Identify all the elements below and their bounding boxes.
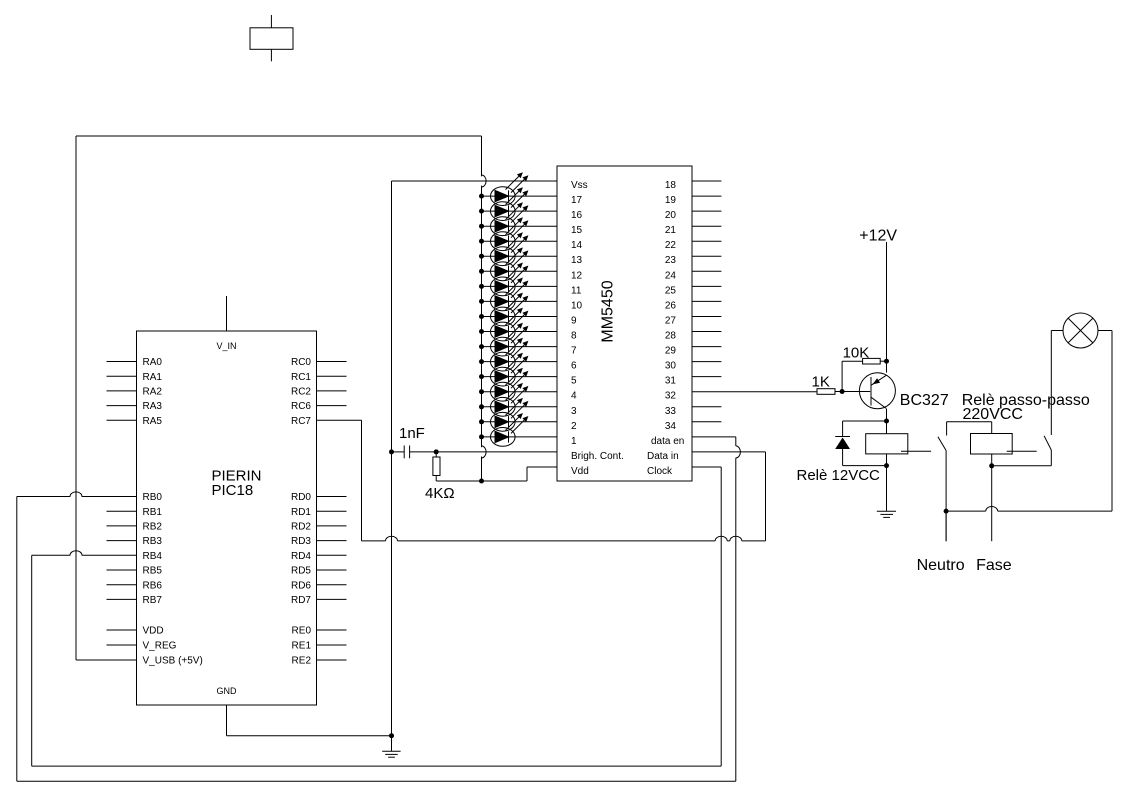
U1 pin RA0 <box>107 357 163 368</box>
U1 pin GND (bottom) <box>217 686 238 736</box>
junction dot LED D3 anode <box>479 224 484 229</box>
flyback diode D18 <box>835 421 886 466</box>
U1 pin RA3 <box>107 401 163 412</box>
wire RB4 left vertical <box>31 555 33 766</box>
microcontroller U1 PIERIN PIC18 body <box>137 331 317 705</box>
svg-text:30: 30 <box>665 361 677 372</box>
svg-text:9: 9 <box>571 316 577 327</box>
U1 pin RE0 <box>292 626 347 637</box>
U1 pin V_IN (top) <box>216 296 236 351</box>
svg-text:18: 18 <box>665 180 677 191</box>
U1 pin RA1 <box>107 372 163 383</box>
U2 pin Vdd label <box>571 466 589 477</box>
wire U2 pin 6 row <box>482 361 558 363</box>
junction dot LED D16 anode <box>479 419 484 424</box>
LED D17 <box>491 413 529 446</box>
U2 pin 30 <box>665 361 722 372</box>
U2 pin 20 <box>665 210 722 221</box>
svg-text:RD4: RD4 <box>291 551 311 562</box>
resistor R1 4KΩ <box>425 452 482 502</box>
junction dot LED D2 anode <box>479 209 484 214</box>
wire U2 pin 32 to 1K resistor <box>692 391 817 393</box>
wire U2 pin 2 row <box>482 421 558 423</box>
switch S1 (K1 contact) <box>938 422 947 542</box>
junction dot K2 low side / Fase <box>989 463 994 468</box>
LED D16 <box>491 398 529 431</box>
U2 pin 16 label <box>571 210 583 221</box>
wire U2 pin 4 row <box>482 391 558 393</box>
svg-text:15: 15 <box>571 225 583 236</box>
svg-text:RA0: RA0 <box>143 357 163 368</box>
U2 pin 19 <box>665 195 722 206</box>
wire U1 RB4 to left bus <box>32 551 137 556</box>
wire U2 pin 14 row <box>482 240 558 242</box>
LED D12 <box>491 338 529 371</box>
LED D3 <box>491 202 529 235</box>
ground symbol (main) <box>382 736 400 758</box>
svg-text:1K: 1K <box>812 374 830 391</box>
U2 pin 26 <box>665 300 722 311</box>
U1 pin RC6 <box>291 401 347 412</box>
wire C1 to U2 Brigh. Cont. <box>436 451 557 453</box>
U1 pin RB6 <box>107 580 163 591</box>
svg-text:24: 24 <box>665 270 677 281</box>
LED anode bus wire (vertical +5V bus) <box>482 136 487 481</box>
svg-text:RE2: RE2 <box>292 656 312 667</box>
U1 pin RD4 <box>291 551 347 562</box>
svg-text:22: 22 <box>665 240 677 251</box>
wire lamp left to S2 <box>1051 330 1063 332</box>
wire RB4 bottom bus to Clock <box>32 765 722 767</box>
U2 pin 33 <box>665 406 722 417</box>
LED D11 <box>491 323 529 356</box>
svg-text:4KΩ: 4KΩ <box>425 485 455 502</box>
svg-text:Vdd: Vdd <box>571 466 589 477</box>
svg-text:data en: data en <box>651 436 684 447</box>
svg-text:6: 6 <box>571 361 577 372</box>
wire K2 to Fase terminal <box>991 454 993 541</box>
svg-text:RB2: RB2 <box>143 522 163 533</box>
junction dot LED D8 anode <box>479 299 484 304</box>
wire U2 Clock down to RB4 bus <box>692 467 721 766</box>
U1 pin RB0 label <box>143 492 163 503</box>
svg-text:RA3: RA3 <box>143 401 163 412</box>
wire U2 Vss to GND net (vertical) <box>392 181 558 736</box>
svg-text:MM5450: MM5450 <box>600 280 617 342</box>
svg-text:RB6: RB6 <box>143 580 163 591</box>
U2 pin Data in <box>647 451 679 462</box>
wire bus to U2 Vdd <box>482 467 558 481</box>
U2 pin 15 label <box>571 225 583 236</box>
svg-text:12: 12 <box>571 270 583 281</box>
U2 pin 18 <box>665 180 722 191</box>
LED D15 <box>491 383 529 416</box>
junction dot LED D9 anode <box>479 314 484 319</box>
svg-text:1: 1 <box>571 436 577 447</box>
U2 pin 4 label <box>571 391 577 402</box>
capacitor C1 1nF <box>392 425 437 458</box>
U1 pin RB4 label <box>143 551 163 562</box>
relay K2 contact lead <box>1007 450 1037 452</box>
LED D10 <box>491 308 529 341</box>
U2 pin data en <box>651 436 684 447</box>
U2 pin 27 <box>665 316 722 327</box>
U1 pin RB7 <box>107 595 163 606</box>
svg-text:Brigh. Cont.: Brigh. Cont. <box>571 451 624 462</box>
U1 pin RD3 <box>291 536 347 547</box>
wire Q1 collector to relay K1 <box>886 409 888 434</box>
U2 pin 34 <box>665 421 722 432</box>
svg-text:17: 17 <box>571 195 583 206</box>
U1 pin RB3 <box>107 536 163 547</box>
svg-text:Fase: Fase <box>976 557 1012 574</box>
U1 pin RB1 <box>107 507 163 518</box>
svg-text:VDD: VDD <box>143 626 164 637</box>
relay K1 coil (Relè 12VCC) <box>797 434 908 484</box>
wire RB0 left vertical <box>16 497 18 782</box>
relay K1 contact lead <box>901 450 931 452</box>
wire K1 to ground <box>886 454 888 511</box>
svg-text:RD5: RD5 <box>291 566 311 577</box>
svg-text:RB0: RB0 <box>143 492 163 503</box>
LED D14 <box>491 368 529 401</box>
svg-text:28: 28 <box>665 331 677 342</box>
LED D5 <box>491 232 529 265</box>
svg-text:11: 11 <box>571 285 582 296</box>
svg-text:V_USB (+5V): V_USB (+5V) <box>143 656 203 667</box>
U2 pin 1 label <box>571 436 577 447</box>
wire lamp right to Neutro net <box>946 331 1112 512</box>
svg-text:RB4: RB4 <box>143 551 163 562</box>
svg-text:Relè 12VCC: Relè 12VCC <box>797 467 881 484</box>
junction dot LED D14 anode <box>479 389 484 394</box>
svg-text:220VCC: 220VCC <box>963 406 1023 423</box>
wire U2 pin 17 row <box>482 195 558 197</box>
svg-text:BC327: BC327 <box>900 392 949 409</box>
U1 pin RD1 <box>291 507 347 518</box>
junction dot R2/R3/base <box>840 389 845 394</box>
LED D9 <box>491 293 529 326</box>
junction dot C1/R1 <box>434 449 439 454</box>
svg-text:23: 23 <box>665 255 677 266</box>
svg-text:RE1: RE1 <box>292 641 312 652</box>
svg-text:V_IN: V_IN <box>216 341 236 351</box>
relay K2 coil (Relè passo-passo 220VCC) <box>962 392 1090 454</box>
svg-text:RD7: RD7 <box>291 595 311 606</box>
U1 pin V_REG <box>107 641 177 652</box>
svg-text:RC6: RC6 <box>291 401 311 412</box>
U2 pin 28 <box>665 331 722 342</box>
LED D1 <box>491 172 529 205</box>
U2 pin 24 <box>665 270 722 281</box>
svg-text:RD2: RD2 <box>291 522 311 533</box>
svg-text:16: 16 <box>571 210 583 221</box>
wire +12V to Q1 emitter <box>886 242 888 373</box>
U1 pin RB2 <box>107 522 163 533</box>
wire U2 pin 16 row <box>482 210 558 212</box>
svg-text:34: 34 <box>665 421 677 432</box>
U1 pin RB5 <box>107 566 163 577</box>
unconnected component (top-left fuse/crystal box) <box>250 15 293 61</box>
U1 pin RC0 <box>291 357 347 368</box>
U1 pin RD5 <box>291 566 347 577</box>
svg-text:RD0: RD0 <box>291 492 311 503</box>
U1 pin RD7 <box>291 595 347 606</box>
svg-text:RC0: RC0 <box>291 357 311 368</box>
wire vertical V_USB riser <box>75 136 77 660</box>
svg-text:RD1: RD1 <box>291 507 311 518</box>
junction dot LED D13 anode <box>479 374 484 379</box>
U1 pin RD0 <box>291 492 347 503</box>
svg-text:13: 13 <box>571 255 583 266</box>
wire U2 pin 12 row <box>482 270 558 272</box>
svg-text:10: 10 <box>571 300 583 311</box>
U2 pin 23 <box>665 255 722 266</box>
wire U2 pin 5 row <box>482 376 558 378</box>
svg-text:Vss: Vss <box>571 180 588 191</box>
U1 pin RC1 <box>291 372 347 383</box>
lamp L1 <box>1063 313 1098 348</box>
wire U2 pin 11 row <box>482 285 558 287</box>
wire U2 pin 15 row <box>482 225 558 227</box>
LED D7 <box>491 263 529 296</box>
LED D6 <box>491 247 529 280</box>
junction dot collector/D-flyback <box>884 419 889 424</box>
junction dot +12V/R2 <box>884 359 889 364</box>
svg-text:1nF: 1nF <box>399 425 425 442</box>
wire U1 RC7 to U2 Data in <box>317 420 766 541</box>
U2 pin 21 <box>665 225 722 236</box>
svg-text:RC2: RC2 <box>291 387 311 398</box>
U1 pin RD6 <box>291 580 347 591</box>
svg-text:Clock: Clock <box>647 466 673 477</box>
wire U2 pin 10 row <box>482 300 558 302</box>
svg-text:21: 21 <box>665 225 677 236</box>
switch S2 (K2 contact) <box>992 331 1052 466</box>
svg-text:RA5: RA5 <box>143 416 163 427</box>
junction dot LED D5 anode <box>479 254 484 259</box>
wire U2 pin 7 row <box>482 346 558 348</box>
ground symbol (relay) <box>877 511 896 517</box>
LED D4 <box>491 217 529 250</box>
svg-text:33: 33 <box>665 406 677 417</box>
svg-text:27: 27 <box>665 316 677 327</box>
junction dot LED D17 anode <box>479 434 484 439</box>
svg-text:PIC18: PIC18 <box>212 482 254 499</box>
transistor Q1 BC327 (PNP) <box>859 373 948 409</box>
U2 pin 3 label <box>571 406 577 417</box>
U2 pin Brigh. Cont. label <box>571 451 624 462</box>
svg-text:29: 29 <box>665 346 677 357</box>
label Neutro <box>917 557 965 574</box>
U2 pin 17 label <box>571 195 583 206</box>
U2 pin 12 label <box>571 270 583 281</box>
U2 pin 25 <box>665 285 722 296</box>
svg-text:RC7: RC7 <box>291 416 311 427</box>
svg-text:RB7: RB7 <box>143 595 163 606</box>
svg-text:10K: 10K <box>843 345 870 362</box>
U2 pin 9 label <box>571 316 577 327</box>
wire U2 pin 1 row <box>482 436 558 438</box>
junction dot LED D12 anode <box>479 359 484 364</box>
wire U2 pin 13 row <box>482 255 558 257</box>
svg-text:7: 7 <box>571 346 577 357</box>
svg-text:+12V: +12V <box>859 228 897 245</box>
svg-text:2: 2 <box>571 421 577 432</box>
U2 pin 5 label <box>571 376 577 387</box>
svg-text:3: 3 <box>571 406 577 417</box>
svg-text:19: 19 <box>665 195 677 206</box>
junction dot Neutro <box>944 509 949 514</box>
wire U2 data en down to RB0 bus <box>692 437 740 781</box>
wire Neutro terminal <box>945 511 947 541</box>
wire V_USB (+5V) pin to riser <box>76 659 137 661</box>
svg-text:Data in: Data in <box>647 451 679 462</box>
LED D8 <box>491 278 529 311</box>
U2 pin 8 label <box>571 331 577 342</box>
wire U1 GND pin to ground net <box>227 735 392 737</box>
U1 pin RC2 <box>291 387 347 398</box>
wire U2 pin 9 row <box>482 316 558 318</box>
U2 pin 14 label <box>571 240 583 251</box>
U2 pin Clock <box>647 466 673 477</box>
U2 pin 6 label <box>571 361 577 372</box>
junction dot LED D7 anode <box>479 284 484 289</box>
junction dot K1 coil low side <box>884 463 889 468</box>
wire S1 to relay K2 coil <box>947 422 992 434</box>
U2 pin 22 <box>665 240 722 251</box>
svg-text:4: 4 <box>571 391 577 402</box>
U1 pin RD2 <box>291 522 347 533</box>
svg-text:32: 32 <box>665 391 677 402</box>
U2 pin 7 label <box>571 346 577 357</box>
junction dot LED D11 anode <box>479 344 484 349</box>
svg-text:RA2: RA2 <box>143 387 163 398</box>
junction dot LED D15 anode <box>479 404 484 409</box>
U2 pin 13 label <box>571 255 583 266</box>
junction dot LED D4 anode <box>479 239 484 244</box>
U2 pin 29 <box>665 346 722 357</box>
junction dot LED D10 anode <box>479 329 484 334</box>
svg-text:8: 8 <box>571 331 577 342</box>
svg-text:31: 31 <box>665 376 677 387</box>
junction dot ground net <box>389 733 394 738</box>
wire U2 pin 8 row <box>482 331 558 333</box>
wire +5V from V_USB to LED bus (top horizontal) <box>76 135 482 137</box>
svg-text:V_REG: V_REG <box>143 641 177 652</box>
resistor R3 1K <box>812 374 871 395</box>
LED D13 <box>491 353 529 386</box>
svg-text:GND: GND <box>217 686 238 696</box>
junction dot LED bus / Vdd <box>479 479 484 484</box>
junction dot LED D1 anode <box>479 194 484 199</box>
svg-text:RD6: RD6 <box>291 580 311 591</box>
U1 pin VDD <box>107 626 164 637</box>
U1 pin RE2 <box>292 656 347 667</box>
U1 pin RC7 label <box>291 416 311 427</box>
svg-text:14: 14 <box>571 240 583 251</box>
svg-text:RB5: RB5 <box>143 566 163 577</box>
U2 pin 31 <box>665 376 722 387</box>
svg-text:Neutro: Neutro <box>917 557 965 574</box>
U1 pin RA5 <box>107 416 163 427</box>
junction dot LED D6 anode <box>479 269 484 274</box>
svg-text:RB1: RB1 <box>143 507 163 518</box>
svg-text:5: 5 <box>571 376 577 387</box>
wire RB0 bottom bus to data en <box>17 780 736 782</box>
U1 pin V_USB (+5V) label <box>143 656 203 667</box>
LED D2 <box>491 187 529 220</box>
LED driver U2 MM5450 body <box>557 166 692 481</box>
U2 pin 11 label <box>571 285 582 296</box>
wire U2 pin 3 row <box>482 406 558 408</box>
junction dot Vss/C1 <box>389 449 394 454</box>
wire U1 RB0 to left bus <box>17 492 137 497</box>
label Fase <box>976 557 1012 574</box>
svg-text:RA1: RA1 <box>143 372 163 383</box>
svg-text:25: 25 <box>665 285 677 296</box>
U2 pin 2 label <box>571 421 577 432</box>
U2 pin 10 label <box>571 300 583 311</box>
svg-text:RD3: RD3 <box>291 536 311 547</box>
U2 pin Vss label <box>571 180 588 191</box>
U1 pin RA2 <box>107 387 163 398</box>
svg-text:26: 26 <box>665 300 677 311</box>
svg-text:RC1: RC1 <box>291 372 311 383</box>
svg-text:RB3: RB3 <box>143 536 163 547</box>
power +12V label <box>859 228 897 245</box>
svg-text:RE0: RE0 <box>292 626 312 637</box>
U1 pin RE1 <box>292 641 347 652</box>
svg-text:20: 20 <box>665 210 677 221</box>
resistor R2 10K <box>842 345 886 392</box>
U2 pin 32 <box>665 391 677 402</box>
